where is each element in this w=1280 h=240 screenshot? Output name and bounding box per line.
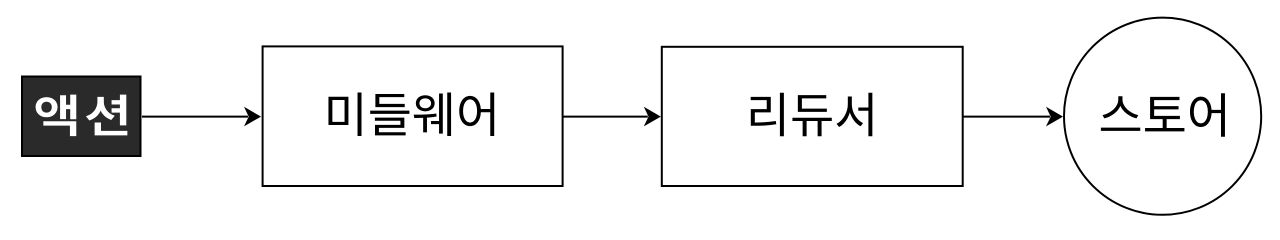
node middleware box (미들웨어): [263, 46, 563, 186]
node store circle (스토어): [1064, 18, 1261, 215]
node reducer box (리듀서): [662, 47, 963, 186]
wire arrow middleware to reducer: [564, 107, 661, 127]
label 스토어: [1101, 93, 1225, 136]
label 미들웨어: [328, 92, 494, 135]
label 액션: [36, 95, 128, 137]
wire arrow action to middleware: [142, 107, 261, 127]
node action box (액션): [22, 77, 141, 157]
label 리듀서: [751, 93, 873, 136]
wire arrow reducer to store: [964, 107, 1064, 127]
